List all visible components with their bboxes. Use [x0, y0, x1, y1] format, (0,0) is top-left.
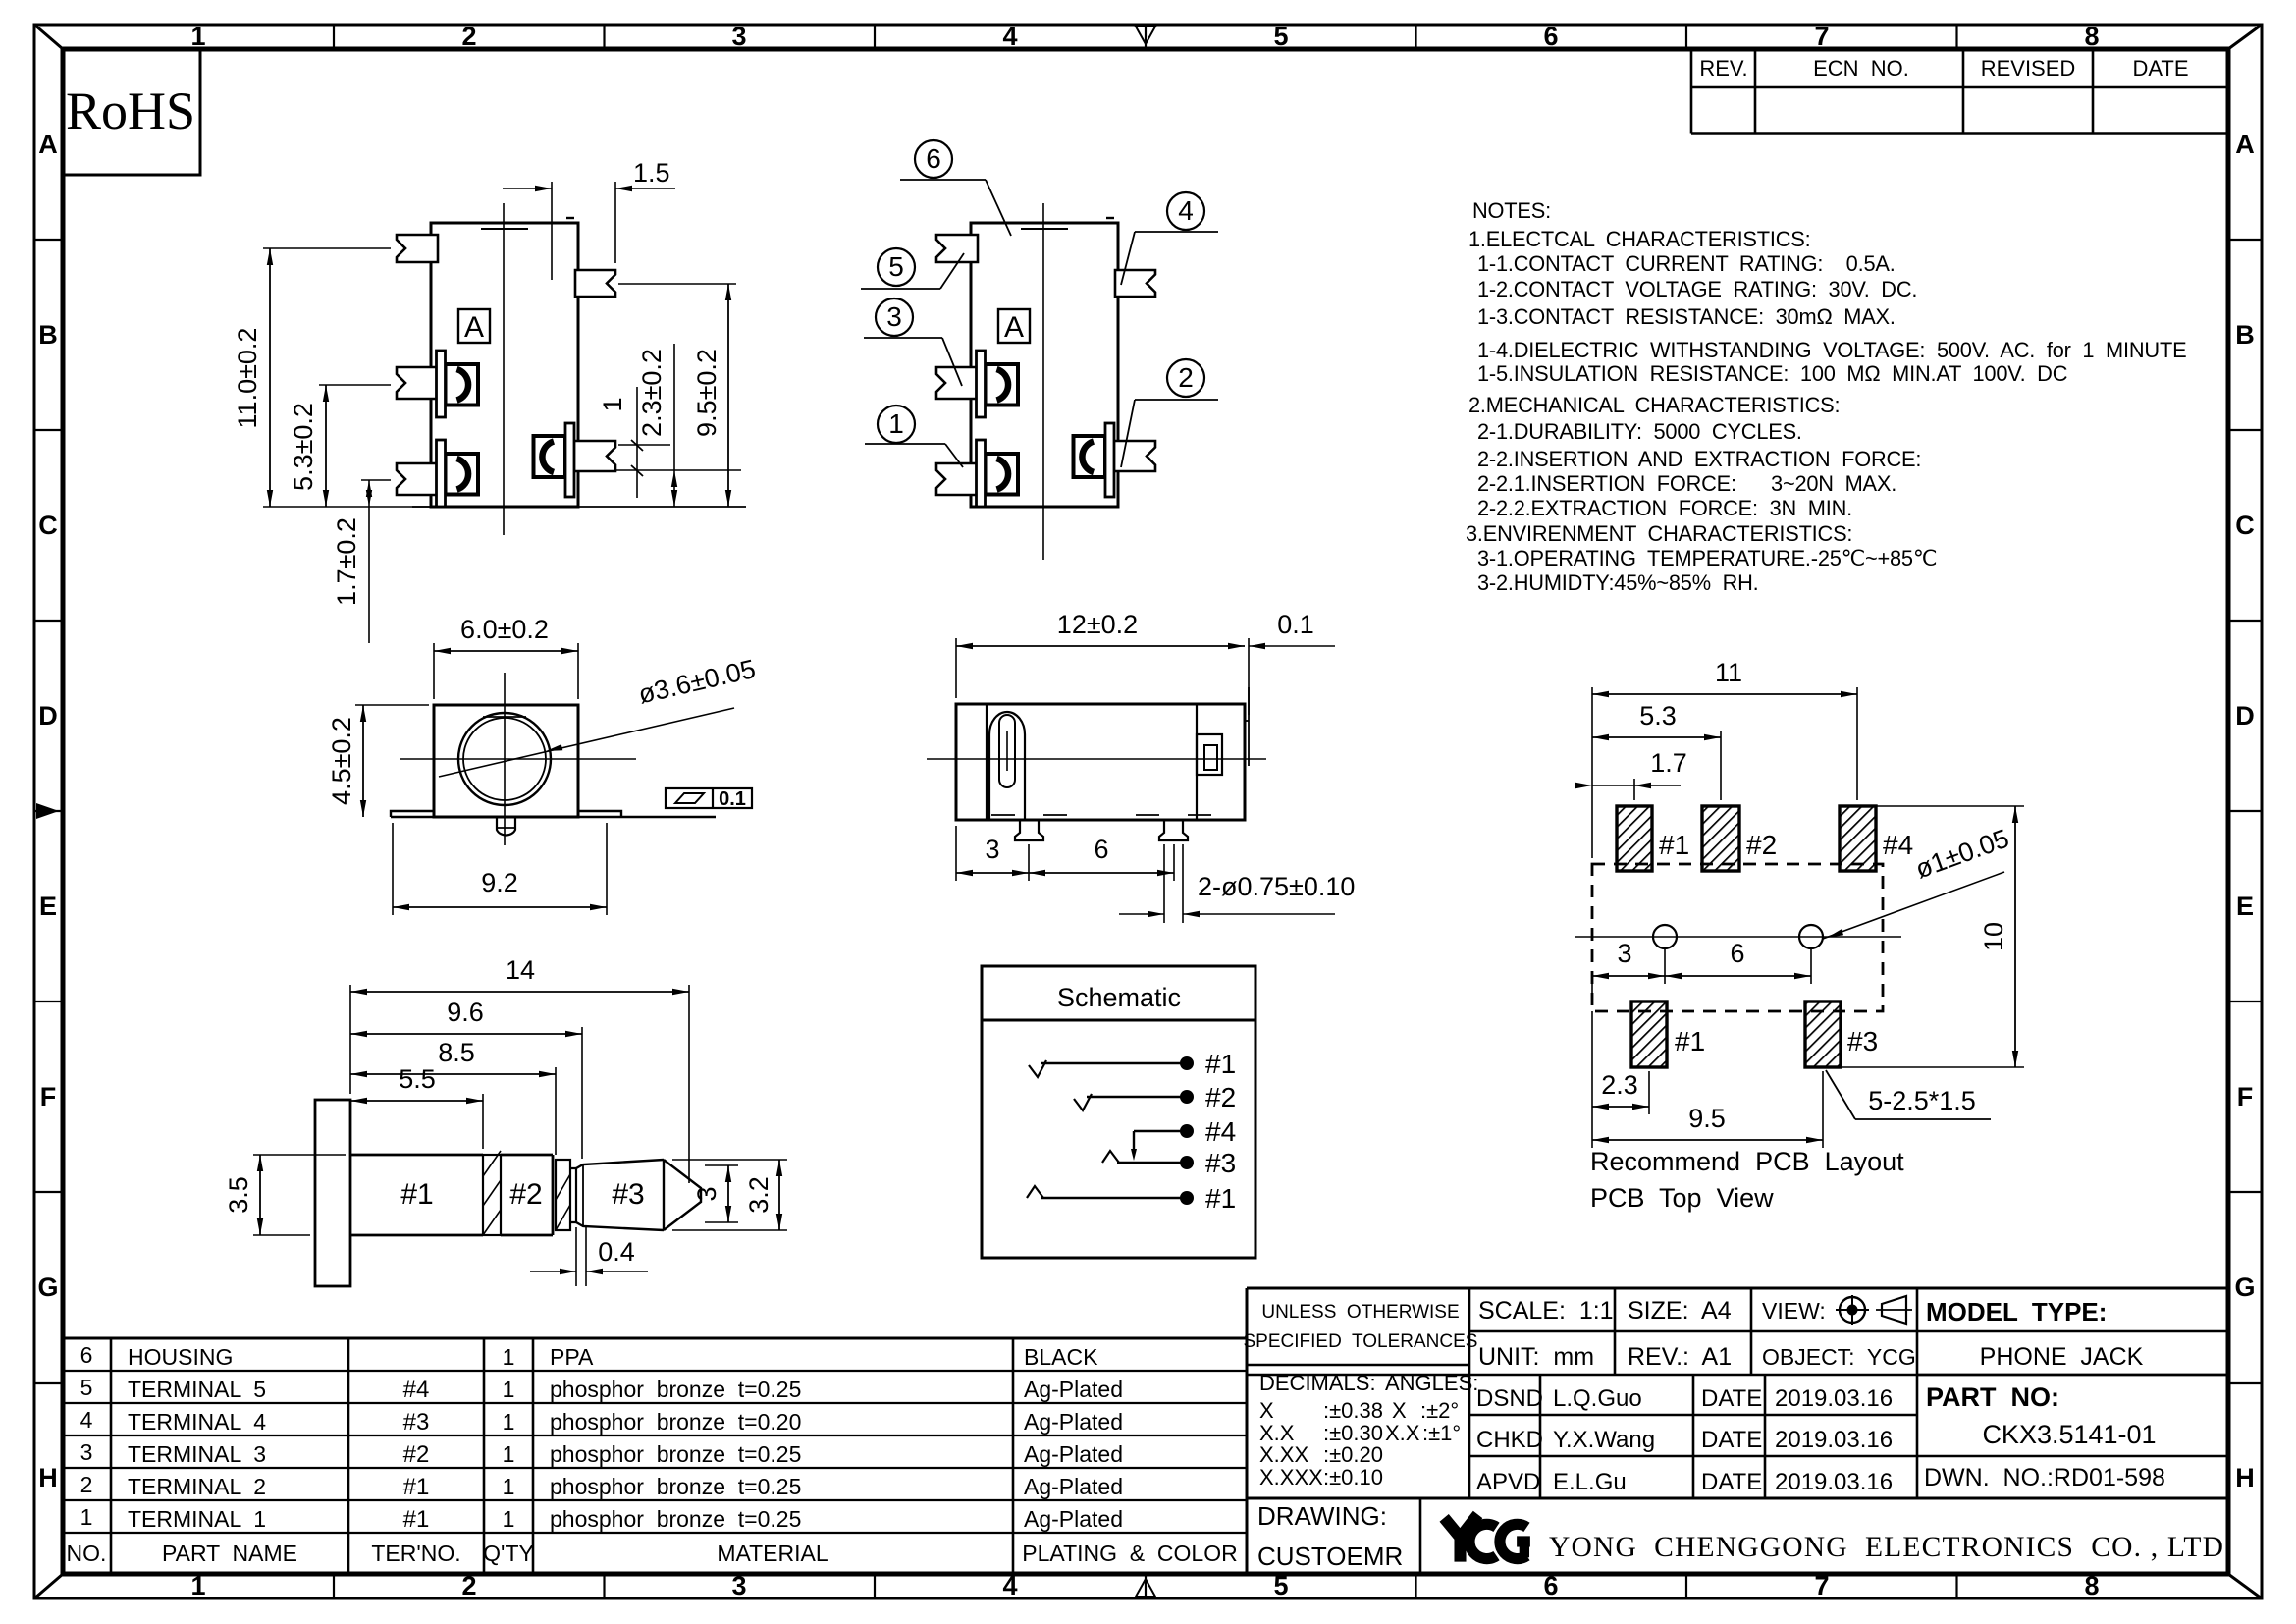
- svg-text:X.X: X.X: [1385, 1421, 1420, 1445]
- svg-text:2: 2: [1178, 362, 1194, 393]
- svg-text:2019.03.16: 2019.03.16: [1775, 1427, 1893, 1453]
- svg-text:DRAWING:: DRAWING:: [1257, 1501, 1387, 1531]
- svg-text:Ag-Plated: Ag-Plated: [1024, 1409, 1123, 1435]
- svg-text:3-1.OPERATING TEMPERATURE.-25: 3-1.OPERATING TEMPERATURE.-25℃~+85℃: [1477, 546, 1937, 570]
- svg-text:phosphor bronze t=0.20: phosphor bronze t=0.20: [550, 1409, 801, 1435]
- svg-text:Ag-Plated: Ag-Plated: [1024, 1377, 1123, 1402]
- dimension 1.7 (PCB): [1633, 779, 1635, 800]
- svg-text:#2: #2: [403, 1441, 430, 1468]
- svg-text:Ag-Plated: Ag-Plated: [1024, 1441, 1123, 1467]
- revision table: [1690, 49, 1693, 134]
- view 1 bottom baseline: [412, 506, 746, 508]
- dimension 2-Ø0.75±0.10 (view 4): [1163, 844, 1165, 923]
- svg-text:APVD: APVD: [1476, 1469, 1540, 1495]
- svg-text::±1°: :±1°: [1422, 1421, 1461, 1445]
- plug insulator band 1: [483, 1155, 501, 1235]
- svg-text:#2: #2: [509, 1178, 542, 1211]
- svg-text:X.XX: X.XX: [1259, 1442, 1308, 1467]
- svg-text:3.5: 3.5: [224, 1176, 253, 1214]
- svg-text:1-4.DIELECTRIC WITHSTANDING: 1-4.DIELECTRIC WITHSTANDING VOLTAGE: 500…: [1477, 338, 2186, 362]
- dimension 1.7±0.2 (view 1): [361, 479, 391, 481]
- view 4 centerline: [927, 758, 1266, 760]
- dimension 9.6 (view 5): [581, 1027, 583, 1159]
- svg-text:3: 3: [985, 835, 999, 864]
- RoHS label box: [63, 49, 200, 175]
- dimension 6 (PCB): [1810, 948, 1812, 984]
- svg-text:A: A: [1004, 311, 1024, 344]
- dimension 6 (view 4): [1173, 844, 1175, 881]
- svg-text:#1: #1: [1659, 830, 1689, 860]
- svg-text:6: 6: [1543, 1571, 1558, 1600]
- view 1 terminal pin 4 (top right): [575, 270, 615, 297]
- svg-text:2.3±0.2: 2.3±0.2: [637, 349, 667, 437]
- svg-text:8: 8: [2084, 1571, 2099, 1600]
- view 1: jack side view body: [431, 223, 578, 507]
- view 2 terminal pin 2: [1112, 441, 1155, 471]
- svg-text:2-2.1.INSERTION FORCE: 3: 2-2.1.INSERTION FORCE: 3~20N MAX.: [1477, 471, 1896, 496]
- svg-text:H: H: [38, 1463, 58, 1492]
- svg-text:PART NAME: PART NAME: [162, 1541, 297, 1566]
- svg-text:1: 1: [503, 1474, 515, 1499]
- svg-text:Ag-Plated: Ag-Plated: [1024, 1506, 1123, 1532]
- svg-text:#1: #1: [403, 1506, 430, 1533]
- svg-text:Q'TY: Q'TY: [483, 1541, 534, 1566]
- svg-text:H: H: [2235, 1463, 2255, 1492]
- view 3 centerlines: [504, 673, 506, 845]
- view 4 contact slot: [989, 712, 1025, 820]
- svg-text::±0.38: :±0.38: [1323, 1398, 1383, 1423]
- svg-text:Recommend PCB Layout: Recommend PCB Layout: [1590, 1147, 1904, 1176]
- PCB pad #3 bottom: [1805, 1001, 1841, 1067]
- svg-text:A: A: [464, 311, 484, 344]
- svg-text:B: B: [38, 320, 58, 350]
- svg-text:D: D: [2235, 701, 2255, 731]
- svg-text:1: 1: [80, 1504, 93, 1530]
- svg-text:D: D: [38, 701, 58, 731]
- svg-text:6: 6: [1094, 835, 1108, 864]
- svg-text:ANGLES:: ANGLES:: [1385, 1371, 1478, 1395]
- svg-text:DATE: DATE: [2132, 56, 2188, 81]
- svg-text:5: 5: [888, 251, 904, 282]
- svg-text:REV.: A1: REV.: A1: [1628, 1343, 1732, 1371]
- svg-text:DWN. NO.:RD01-598: DWN. NO.:RD01-598: [1924, 1464, 2165, 1491]
- dimension 14 (view 5): [349, 985, 351, 1094]
- PCB pad #4 top: [1840, 806, 1876, 871]
- svg-text:DATE: DATE: [1701, 1427, 1762, 1453]
- svg-text:phosphor bronze t=0.25: phosphor bronze t=0.25: [550, 1474, 801, 1499]
- svg-text:1-2.CONTACT VOLTAGE RATING:: 1-2.CONTACT VOLTAGE RATING: 30V. DC.: [1477, 277, 1917, 301]
- svg-text:NO.: NO.: [67, 1541, 107, 1566]
- svg-text:PHONE JACK: PHONE JACK: [1980, 1343, 2144, 1371]
- svg-text:E.L.Gu: E.L.Gu: [1553, 1469, 1627, 1495]
- balloon 2: [1167, 359, 1204, 397]
- svg-text:#2: #2: [1746, 830, 1777, 860]
- svg-text:F: F: [2237, 1082, 2254, 1111]
- svg-text:PART NO:: PART NO:: [1926, 1382, 2059, 1412]
- plug tip: [664, 1160, 701, 1230]
- svg-text:0.4: 0.4: [598, 1237, 635, 1267]
- svg-text:2019.03.16: 2019.03.16: [1775, 1385, 1893, 1412]
- schematic box: [982, 966, 1255, 1258]
- dimension 3 (view 4): [955, 826, 957, 881]
- svg-text:A: A: [38, 130, 58, 159]
- schematic wire #1 sleeve: [1041, 1197, 1187, 1199]
- svg-text:2-ø0.75±0.10: 2-ø0.75±0.10: [1198, 872, 1355, 901]
- svg-text:DSND: DSND: [1476, 1385, 1543, 1412]
- svg-text:6: 6: [1730, 939, 1744, 968]
- svg-text:1: 1: [888, 408, 904, 439]
- svg-text:UNLESS OTHERWISE: UNLESS OTHERWISE: [1261, 1302, 1459, 1323]
- svg-text:#3: #3: [1205, 1148, 1236, 1178]
- view 2 section label A: [998, 309, 1030, 343]
- svg-text:1: 1: [503, 1506, 515, 1532]
- svg-text:7: 7: [1814, 22, 1829, 51]
- svg-text:YONG CHENGGONG ELECTRONICS: YONG CHENGGONG ELECTRONICS CO. , LTD.: [1549, 1532, 2233, 1563]
- dimension 9.5±0.2 (view 1): [618, 283, 736, 285]
- svg-text:4.5±0.2: 4.5±0.2: [327, 717, 356, 805]
- svg-text:REVISED: REVISED: [1981, 56, 2076, 81]
- svg-text:VIEW:: VIEW:: [1762, 1298, 1826, 1324]
- svg-text:Y.X.Wang: Y.X.Wang: [1553, 1427, 1655, 1453]
- svg-text:TERMINAL 4: TERMINAL 4: [128, 1409, 266, 1435]
- svg-text:1: 1: [190, 22, 205, 51]
- svg-text:4: 4: [1002, 1571, 1017, 1600]
- dimension 5-2.5*1.5 leader (PCB): [1826, 1070, 1855, 1119]
- svg-text:PLATING & COLOR: PLATING & COLOR: [1022, 1541, 1237, 1566]
- svg-text:Ag-Plated: Ag-Plated: [1024, 1474, 1123, 1499]
- dimension 3.2 (plug shaft): [672, 1159, 787, 1161]
- svg-text:E: E: [39, 892, 57, 921]
- svg-text:5.3: 5.3: [1639, 701, 1677, 731]
- svg-text:0.1: 0.1: [719, 788, 746, 810]
- view 3: front view body: [434, 705, 578, 817]
- svg-text:12±0.2: 12±0.2: [1057, 610, 1138, 639]
- svg-text:HOUSING: HOUSING: [128, 1344, 233, 1370]
- svg-text:9.5±0.2: 9.5±0.2: [692, 349, 721, 437]
- schematic wire #2: [1087, 1096, 1187, 1098]
- PCB layout outline (dashed): [1592, 864, 1883, 1011]
- svg-text:2: 2: [461, 22, 476, 51]
- svg-text:SCALE: 1:1: SCALE: 1:1: [1478, 1297, 1614, 1325]
- dimension 1.5 (view 1): [551, 182, 553, 280]
- dimension 0.1 (view 4): [1248, 638, 1250, 715]
- dimension 4.5±0.2 (view 3): [355, 704, 429, 706]
- YCG logo: [1444, 1514, 1530, 1561]
- balloon 5: [878, 248, 915, 286]
- svg-text:#4: #4: [1883, 830, 1913, 860]
- svg-text:RoHS: RoHS: [66, 81, 195, 140]
- plug segment #3 (cone): [570, 1168, 576, 1222]
- dimension Ø1±0.05 leader (PCB): [1823, 872, 2004, 939]
- svg-text:3: 3: [80, 1439, 93, 1465]
- dimension 9.5 (PCB): [1591, 1011, 1593, 1148]
- svg-text:REV.: REV.: [1699, 56, 1747, 81]
- svg-text:3: 3: [1617, 939, 1631, 968]
- balloon 4: [1167, 192, 1204, 230]
- svg-text:8: 8: [2084, 22, 2099, 51]
- svg-text:A: A: [2235, 130, 2255, 159]
- svg-text:2-2.2.EXTRACTION FORCE: 3N: 2-2.2.EXTRACTION FORCE: 3N MIN.: [1477, 496, 1852, 520]
- svg-text:PCB Top View: PCB Top View: [1590, 1183, 1774, 1213]
- svg-text:4: 4: [1002, 22, 1017, 51]
- balloon 6: [915, 140, 952, 178]
- svg-text:3: 3: [731, 22, 746, 51]
- svg-text:8.5: 8.5: [438, 1038, 475, 1067]
- svg-text::±0.20: :±0.20: [1323, 1442, 1383, 1467]
- svg-text:G: G: [37, 1272, 58, 1302]
- balloon 1: [878, 406, 915, 443]
- svg-text:7: 7: [1814, 1571, 1829, 1600]
- svg-text:#4: #4: [1205, 1116, 1236, 1147]
- svg-text:5-2.5*1.5: 5-2.5*1.5: [1868, 1086, 1976, 1115]
- view 1 section label A: [458, 309, 490, 343]
- svg-text:2.MECHANICAL CHARACTERISTICS:: 2.MECHANICAL CHARACTERISTICS:: [1468, 393, 1840, 417]
- center alignment markers: [1136, 25, 1155, 44]
- view 1 terminal pin 2 (bottom right): [572, 441, 615, 471]
- svg-text:10: 10: [1979, 922, 2008, 951]
- svg-text:ECN NO.: ECN NO.: [1813, 56, 1909, 81]
- svg-text:BLACK: BLACK: [1024, 1344, 1098, 1370]
- dimension 12±0.2 (view 4): [955, 638, 957, 698]
- svg-text:X: X: [1259, 1398, 1274, 1423]
- svg-text:MATERIAL: MATERIAL: [717, 1541, 828, 1566]
- view 2 terminal pin 5: [936, 235, 978, 262]
- svg-text:0.1: 0.1: [1277, 610, 1314, 639]
- dimension 11.0±0.2 (view 1): [263, 247, 391, 249]
- svg-text:TERMINAL 2: TERMINAL 2: [128, 1474, 266, 1499]
- svg-text:#3: #3: [1847, 1026, 1878, 1056]
- BOM table: [63, 1337, 1247, 1340]
- svg-text:TERMINAL 3: TERMINAL 3: [128, 1441, 266, 1467]
- view 2 centerline: [1042, 203, 1044, 560]
- svg-text:TERMINAL 5: TERMINAL 5: [128, 1377, 266, 1402]
- svg-text:6: 6: [926, 143, 941, 174]
- svg-text:#1: #1: [1205, 1183, 1236, 1214]
- svg-text:3: 3: [731, 1571, 746, 1600]
- svg-text:L.Q.Guo: L.Q.Guo: [1553, 1385, 1642, 1412]
- view: third angle projection symbols: [1840, 1297, 1865, 1323]
- svg-text:phosphor bronze t=0.25: phosphor bronze t=0.25: [550, 1441, 801, 1467]
- svg-text:1-3.CONTACT RESISTANCE: 30mΩ: 1-3.CONTACT RESISTANCE: 30mΩ MAX.: [1477, 304, 1896, 329]
- view 2 terminal pin 3: [936, 367, 978, 399]
- svg-text:C: C: [2235, 511, 2255, 540]
- svg-text:6: 6: [1543, 22, 1558, 51]
- svg-text:1: 1: [503, 1441, 515, 1467]
- svg-text:E: E: [2236, 892, 2254, 921]
- dimension 8.5 (view 5): [555, 1067, 557, 1155]
- svg-text:11.0±0.2: 11.0±0.2: [233, 328, 262, 429]
- svg-text:TER'NO.: TER'NO.: [371, 1541, 460, 1566]
- svg-text:1: 1: [190, 1571, 205, 1600]
- dimension 10 (PCB): [1876, 805, 2024, 807]
- svg-text:OBJECT: YCG: OBJECT: YCG: [1762, 1344, 1916, 1370]
- view 3 jack bore circles: [458, 713, 551, 805]
- svg-text:CHKD: CHKD: [1476, 1427, 1543, 1453]
- svg-text:#1: #1: [403, 1474, 430, 1500]
- svg-text:3.ENVIRENMENT CHARACTERISTICS: 3.ENVIRENMENT CHARACTERISTICS:: [1466, 521, 1852, 546]
- dimension 11 (PCB): [1591, 687, 1593, 858]
- svg-text:5.3±0.2: 5.3±0.2: [289, 403, 318, 491]
- dimension 5.3±0.2 (view 1): [319, 384, 391, 386]
- dimension 3.5 (view 5): [253, 1154, 346, 1156]
- svg-text:DATE: DATE: [1701, 1385, 1762, 1412]
- svg-text:3: 3: [692, 1186, 721, 1201]
- svg-text:1.7±0.2: 1.7±0.2: [332, 517, 361, 606]
- svg-text:phosphor bronze t=0.25: phosphor bronze t=0.25: [550, 1506, 801, 1532]
- svg-text:6.0±0.2: 6.0±0.2: [460, 615, 549, 644]
- svg-text:5.5: 5.5: [399, 1064, 436, 1094]
- svg-text:6: 6: [80, 1342, 93, 1368]
- PCB pad #1 bottom: [1631, 1001, 1667, 1067]
- svg-text:#3: #3: [612, 1178, 644, 1211]
- svg-text:14: 14: [506, 955, 535, 985]
- view 5: mating plug flange: [315, 1100, 350, 1286]
- svg-text:4: 4: [1178, 195, 1194, 226]
- PCB pad #1 top: [1617, 806, 1652, 871]
- svg-text:#3: #3: [403, 1409, 430, 1435]
- svg-text:CKX3.5141-01: CKX3.5141-01: [1982, 1420, 2156, 1449]
- svg-text:#2: #2: [1205, 1082, 1236, 1112]
- svg-text:5: 5: [1273, 1571, 1288, 1600]
- dimension 0.4 (view 5): [575, 1227, 577, 1286]
- view 5 plug body segments: [350, 1154, 483, 1157]
- view 4 right contact: [1196, 704, 1198, 820]
- svg-text:11: 11: [1715, 658, 1742, 687]
- svg-text:G: G: [2234, 1272, 2255, 1302]
- schematic wire #1 (tip contact): [1041, 1062, 1187, 1064]
- svg-text:#1: #1: [1675, 1026, 1705, 1056]
- svg-text:2: 2: [80, 1472, 93, 1497]
- svg-text:#1: #1: [400, 1178, 433, 1211]
- schematic wire #3: [1117, 1162, 1187, 1164]
- dimension 3 (plug tip): [705, 1164, 738, 1166]
- title block frame: [1247, 1287, 2228, 1290]
- svg-text:#4: #4: [403, 1377, 430, 1403]
- plug segment #2: [501, 1154, 553, 1157]
- svg-text:2: 2: [461, 1571, 476, 1600]
- svg-text:NOTES:: NOTES:: [1472, 198, 1551, 223]
- svg-text:1-1.CONTACT CURRENT RATING:: 1-1.CONTACT CURRENT RATING: 0.5A.: [1477, 251, 1896, 276]
- dimension 3 (PCB): [1591, 984, 1593, 1005]
- view 1 centerline: [503, 203, 505, 535]
- view 4: long side view body: [956, 704, 1245, 820]
- flatness feature control frame 0.1: [666, 788, 752, 808]
- svg-text:DECIMALS:: DECIMALS:: [1259, 1371, 1376, 1395]
- svg-text:F: F: [40, 1082, 57, 1111]
- plug insulator band 2: [556, 1160, 570, 1230]
- svg-text:X: X: [1392, 1398, 1407, 1423]
- svg-text:1: 1: [503, 1409, 515, 1435]
- svg-text:X.XXX: X.XXX: [1259, 1465, 1323, 1489]
- svg-text:1.7: 1.7: [1650, 748, 1687, 778]
- svg-text:9.6: 9.6: [447, 998, 484, 1027]
- svg-text:2-1.DURABILITY: 5000 CYCLES.: 2-1.DURABILITY: 5000 CYCLES.: [1477, 419, 1802, 444]
- dimension 2.3 (PCB): [1648, 1071, 1650, 1114]
- svg-text:9.2: 9.2: [481, 868, 518, 897]
- svg-text:#1: #1: [1205, 1049, 1236, 1079]
- svg-text:B: B: [2235, 320, 2255, 350]
- svg-text::±0.10: :±0.10: [1323, 1465, 1383, 1489]
- dimension 1 (view 1): [618, 444, 670, 446]
- svg-text:PPA: PPA: [550, 1344, 594, 1370]
- dimension 5.3 (PCB): [1720, 731, 1722, 800]
- view 2 terminal pin 1: [936, 463, 978, 495]
- svg-text:1-5.INSULATION RESISTANCE: 1: 1-5.INSULATION RESISTANCE: 100 MΩ MIN.AT…: [1477, 361, 2067, 386]
- svg-text:2.3: 2.3: [1601, 1070, 1638, 1100]
- PCB holes: [1653, 925, 1677, 948]
- schematic wire #4: [1134, 1130, 1187, 1132]
- svg-text:CUSTOEMR: CUSTOEMR: [1257, 1542, 1403, 1571]
- svg-text:1: 1: [598, 397, 627, 411]
- svg-text:C: C: [38, 511, 58, 540]
- svg-text::±2°: :±2°: [1420, 1398, 1459, 1423]
- svg-text:1.ELECTCAL CHARACTERISTICS:: 1.ELECTCAL CHARACTERISTICS:: [1468, 227, 1810, 251]
- svg-text:DATE: DATE: [1701, 1469, 1762, 1495]
- svg-text:3: 3: [886, 301, 902, 332]
- svg-text:TERMINAL 1: TERMINAL 1: [128, 1506, 266, 1532]
- PCB pad #2 top: [1702, 806, 1739, 871]
- balloon 3: [876, 298, 913, 336]
- view 1 terminal pin 3 (middle left): [397, 367, 438, 399]
- svg-text:5: 5: [1273, 22, 1288, 51]
- svg-text:phosphor bronze t=0.25: phosphor bronze t=0.25: [550, 1377, 801, 1402]
- svg-text:1: 1: [503, 1344, 515, 1370]
- svg-text:2019.03.16: 2019.03.16: [1775, 1469, 1893, 1495]
- svg-text:5: 5: [80, 1375, 93, 1400]
- svg-text:MODEL TYPE:: MODEL TYPE:: [1926, 1297, 2107, 1326]
- svg-text:2-2.INSERTION AND EXTRACTION: 2-2.INSERTION AND EXTRACTION FORCE:: [1477, 447, 1921, 471]
- svg-text:UNIT: mm: UNIT: mm: [1478, 1343, 1594, 1371]
- view 4 right thin plate (0.1): [1248, 687, 1250, 766]
- svg-text:4: 4: [80, 1407, 93, 1433]
- view 1 terminal pin 5 (top left): [397, 235, 438, 262]
- svg-text:1.5: 1.5: [633, 158, 670, 188]
- view 2 terminal pin 4: [1115, 270, 1155, 297]
- dimension 6.0±0.2 (view 3): [433, 643, 435, 699]
- dimension 5.5 (view 5): [482, 1094, 484, 1149]
- view 4 solder pins: [1015, 820, 1043, 840]
- view 3 bottom nub: [497, 817, 515, 836]
- view 3 mounting flanges: [391, 811, 434, 817]
- svg-text:9.5: 9.5: [1688, 1104, 1726, 1133]
- svg-text:Schematic: Schematic: [1057, 983, 1181, 1012]
- view 1 terminal pin 1 (bottom left): [397, 463, 438, 495]
- svg-text:3-2.HUMIDTY:45%~85% RH.: 3-2.HUMIDTY:45%~85% RH.: [1477, 570, 1759, 595]
- svg-text:1: 1: [503, 1377, 515, 1402]
- svg-text:SIZE: A4: SIZE: A4: [1628, 1297, 1732, 1325]
- view 2: jack side view body: [971, 223, 1118, 507]
- dimension Ø3.6±0.05 leader (view 3): [439, 708, 734, 777]
- svg-text:3.2: 3.2: [744, 1176, 774, 1214]
- dimension 9.2 (view 3): [392, 823, 394, 915]
- svg-text:SPECIFIED TOLERANCES: SPECIFIED TOLERANCES: [1244, 1331, 1478, 1352]
- dimension 2.3±0.2 (view 1): [614, 469, 741, 471]
